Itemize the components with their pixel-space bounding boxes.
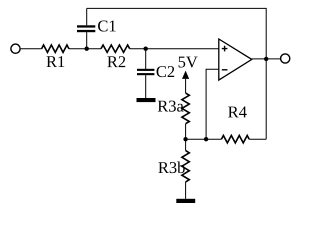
wire input to R1 [20,48,41,50]
node D [204,137,208,141]
resistor R2 [101,45,130,52]
ground for R3b [176,199,195,203]
wire R2 to opamp plus [130,48,219,50]
op-amp U1 [219,39,252,80]
svg-text:R2: R2 [107,52,126,71]
wire R3a to node C [185,124,187,151]
node C [183,137,187,141]
resistor R3a [182,93,189,124]
output terminal [281,54,290,63]
svg-text:R4: R4 [228,102,247,121]
resistor R3b [182,151,189,182]
op-amp minus pin [222,69,228,71]
svg-text:5V: 5V [178,52,198,71]
wire top feedback [87,8,267,139]
node B [144,47,148,51]
node E output [264,57,268,61]
wire node C to R4 [186,138,222,140]
op-amp plus pin [222,46,228,52]
resistor R4 [221,136,249,143]
svg-text:C1: C1 [97,16,116,35]
input terminal [11,44,20,53]
resistor R1 [42,45,69,52]
wire minus input feedback [206,69,219,139]
5V supply arrow [182,71,189,79]
svg-text:R1: R1 [46,52,65,71]
capacitor C2 [145,49,147,71]
node A [85,47,89,51]
wire R4 to feedback vertical [249,138,266,140]
capacitor C1 [86,32,88,49]
wire R1 to node A [69,48,101,50]
ground for C2 [137,98,156,102]
svg-text:C2: C2 [156,62,175,81]
svg-text:R3a: R3a [157,97,184,116]
wire opamp output [252,58,281,60]
svg-text:R3b: R3b [158,158,186,177]
wire R3b to ground [185,182,187,199]
